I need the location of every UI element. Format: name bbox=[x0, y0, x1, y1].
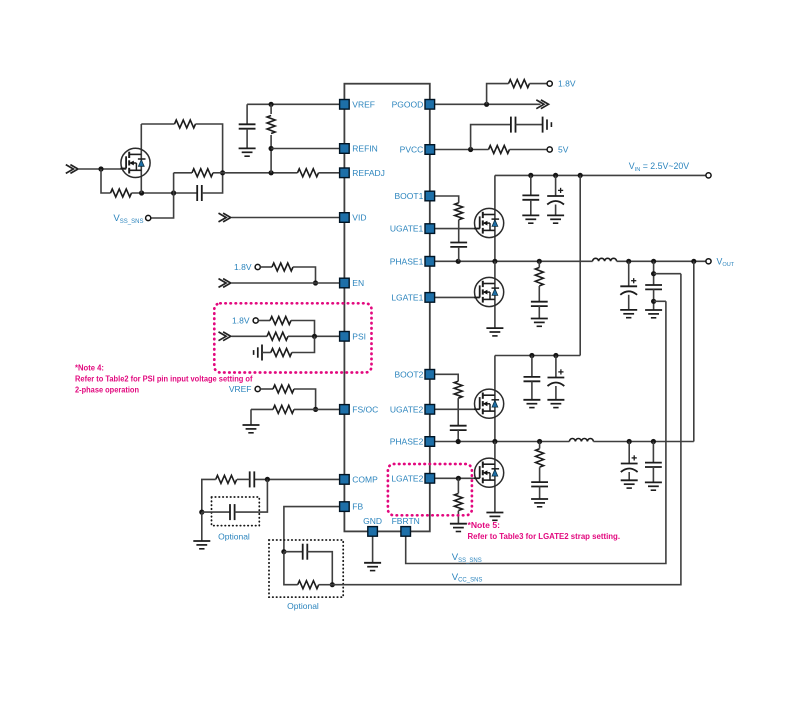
svg-text:1.8V: 1.8V bbox=[232, 316, 250, 326]
svg-text:UGATE1: UGATE1 bbox=[390, 224, 424, 234]
svg-text:BOOT2: BOOT2 bbox=[394, 369, 423, 379]
svg-text:Optional: Optional bbox=[287, 601, 319, 611]
svg-text:1.8V: 1.8V bbox=[558, 79, 576, 89]
svg-text:FBRTN: FBRTN bbox=[392, 516, 420, 526]
svg-text:Refer to Table2 for PSI pin in: Refer to Table2 for PSI pin input voltag… bbox=[75, 374, 253, 383]
svg-text:*Note 5:: *Note 5: bbox=[468, 521, 501, 530]
svg-text:PVCC: PVCC bbox=[400, 145, 424, 155]
svg-text:1.8V: 1.8V bbox=[234, 262, 252, 272]
svg-text:LGATE2: LGATE2 bbox=[391, 473, 423, 483]
svg-text:FS/OC: FS/OC bbox=[352, 405, 378, 415]
svg-text:LGATE1: LGATE1 bbox=[391, 293, 423, 303]
svg-text:VREF: VREF bbox=[229, 384, 252, 394]
svg-text:Refer to Table3 for LGATE2 str: Refer to Table3 for LGATE2 strap setting… bbox=[468, 532, 621, 541]
svg-text:Optional: Optional bbox=[218, 532, 250, 542]
svg-text:BOOT1: BOOT1 bbox=[394, 191, 423, 201]
svg-text:EN: EN bbox=[352, 278, 364, 288]
svg-text:5V: 5V bbox=[558, 145, 569, 155]
svg-text:GND: GND bbox=[363, 516, 382, 526]
svg-text:REFIN: REFIN bbox=[352, 144, 378, 154]
svg-text:FB: FB bbox=[352, 502, 363, 512]
svg-text:VID: VID bbox=[352, 213, 366, 223]
svg-text:COMP: COMP bbox=[352, 475, 378, 485]
svg-text:*Note 4:: *Note 4: bbox=[75, 363, 104, 372]
svg-text:2-phase operation: 2-phase operation bbox=[75, 385, 139, 394]
svg-text:UGATE2: UGATE2 bbox=[390, 404, 424, 414]
svg-text:PSI: PSI bbox=[352, 331, 366, 341]
svg-text:REFADJ: REFADJ bbox=[352, 168, 385, 178]
svg-text:PHASE1: PHASE1 bbox=[390, 256, 424, 266]
svg-text:PHASE2: PHASE2 bbox=[390, 437, 424, 447]
svg-text:VREF: VREF bbox=[352, 99, 375, 109]
svg-text:PGOOD: PGOOD bbox=[392, 99, 424, 109]
